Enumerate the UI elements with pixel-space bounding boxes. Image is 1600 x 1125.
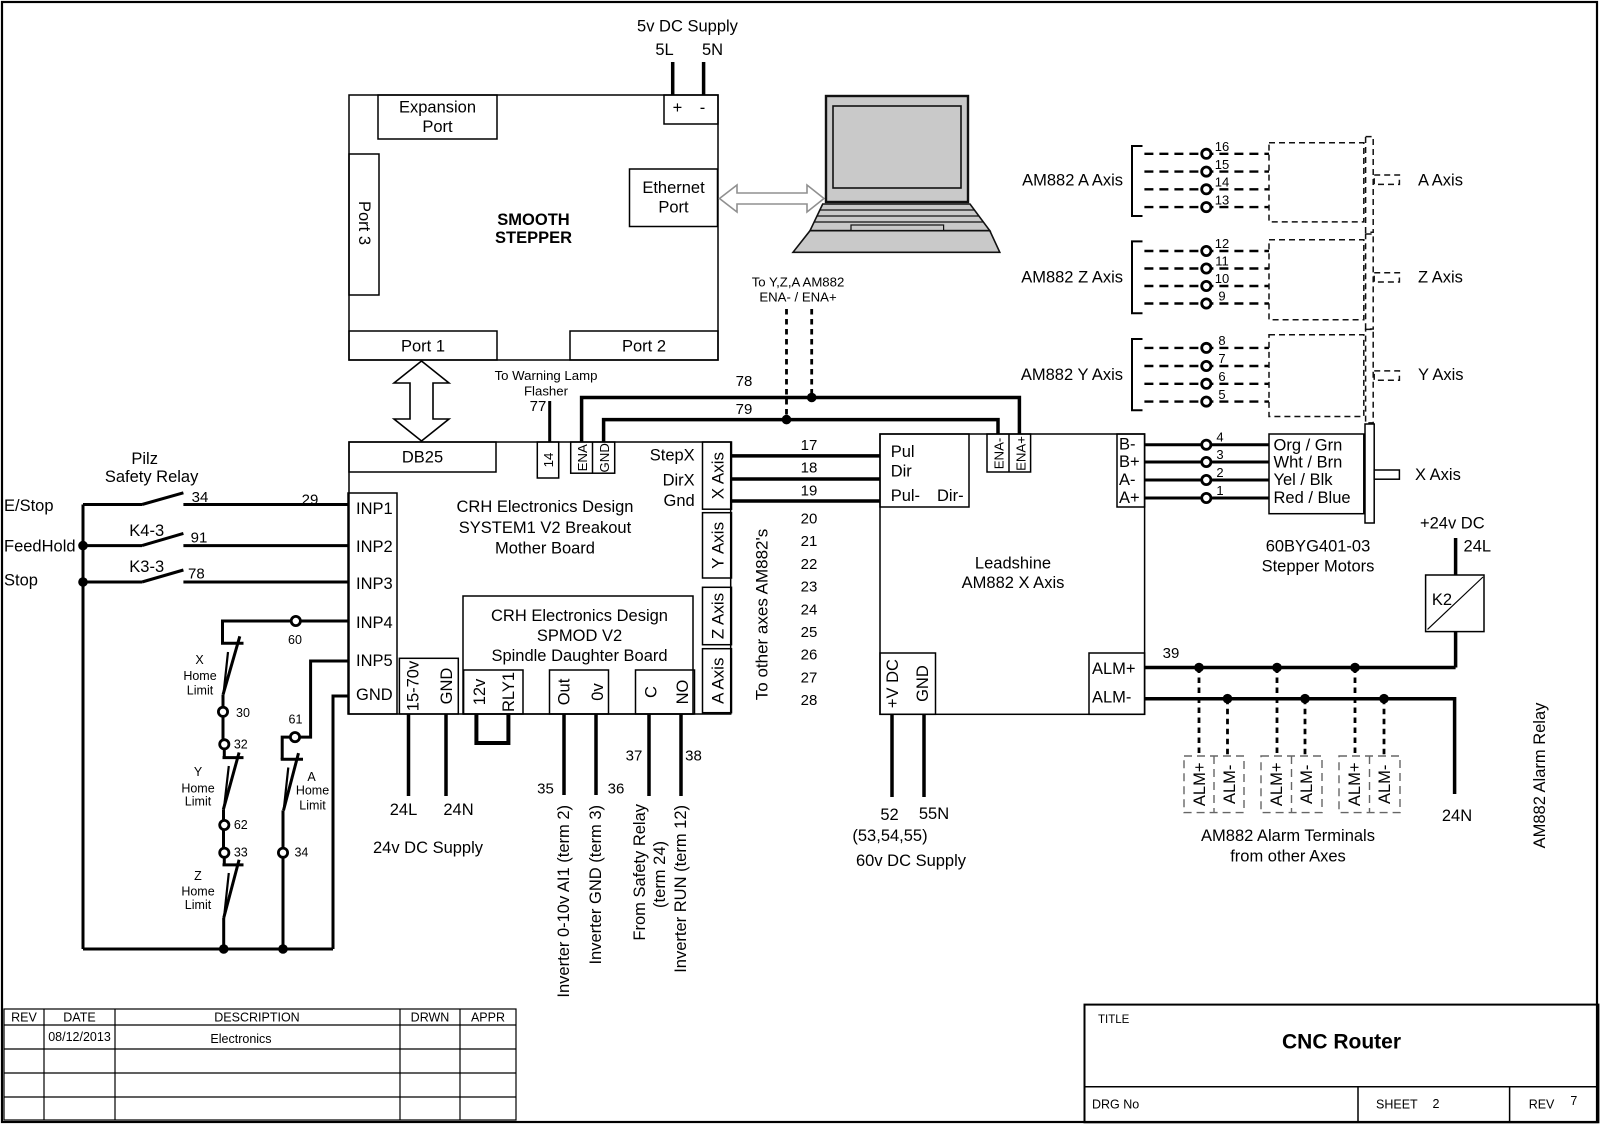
svg-text:61: 61 [289, 713, 303, 727]
svg-text:36: 36 [608, 781, 625, 798]
pin 9 [1202, 299, 1211, 308]
svg-text:1: 1 [1216, 483, 1223, 498]
dashed drop ALM+ c [1354, 668, 1357, 757]
wire B+ pin 3 [1145, 461, 1269, 464]
pin 32 [220, 740, 229, 749]
pin 6 [1202, 379, 1211, 388]
svg-text:Pul: Pul [891, 443, 915, 461]
svg-text:DRG No: DRG No [1092, 1098, 1139, 1112]
junction on wire 78 [807, 393, 817, 403]
svg-text:Y: Y [194, 765, 203, 779]
svg-text:78: 78 [736, 373, 753, 390]
dashed wire pin 16 [1144, 153, 1269, 155]
svg-text:DB25: DB25 [402, 449, 443, 467]
junction X chain bottom [219, 944, 229, 954]
dashed drop ALM+ a [1198, 668, 1201, 757]
svg-text:INP3: INP3 [356, 575, 393, 593]
svg-text:A+: A+ [1119, 489, 1140, 507]
svg-text:Port 1: Port 1 [401, 338, 445, 356]
svg-text:29: 29 [302, 492, 319, 509]
svg-text:Inverter GND (term 3): Inverter GND (term 3) [587, 805, 605, 965]
Y axis header [703, 513, 732, 578]
title block [1085, 1005, 1599, 1123]
wire B- pin 4 [1145, 443, 1269, 446]
svg-text:StepX: StepX [650, 447, 695, 465]
power terminal block + - [664, 95, 718, 124]
svg-text:34: 34 [192, 489, 209, 506]
ENA- ENA+ terminal block [987, 434, 1031, 472]
svg-text:38: 38 [685, 748, 702, 765]
svg-text:From Safety Relay: From Safety Relay [631, 803, 649, 940]
A axis header [703, 649, 732, 713]
svg-text:33: 33 [234, 846, 248, 860]
svg-text:Port 3: Port 3 [355, 201, 373, 245]
svg-text:24L: 24L [390, 801, 418, 819]
svg-text:C: C [643, 686, 661, 698]
svg-text:Electronics: Electronics [210, 1032, 271, 1046]
wire 5L to + terminal [671, 62, 675, 95]
svg-text:4: 4 [1216, 430, 1223, 445]
svg-text:ALM+: ALM+ [1268, 763, 1286, 807]
pin 62 [220, 820, 229, 829]
wire 5N to - terminal [702, 62, 706, 95]
svg-text:INP1: INP1 [356, 500, 393, 518]
pin 8 [1202, 343, 1211, 352]
svg-text:CRH Electronics Design: CRH Electronics Design [457, 498, 634, 516]
svg-text:X: X [195, 653, 204, 667]
pin 13 [1202, 203, 1211, 212]
svg-text:08/12/2013: 08/12/2013 [48, 1030, 111, 1044]
svg-text:22: 22 [801, 556, 818, 573]
dashed wire pin 5 [1144, 400, 1269, 402]
pin 1 [1202, 493, 1211, 502]
dashed wire pin 9 [1144, 302, 1269, 304]
svg-text:AM882 Y Axis: AM882 Y Axis [1021, 366, 1123, 384]
svg-text:Port: Port [422, 118, 453, 136]
svg-text:Limit: Limit [299, 798, 326, 812]
svg-text:7: 7 [1570, 1094, 1577, 1108]
dashed wire pin 6 [1144, 383, 1269, 385]
svg-text:Pilz: Pilz [131, 450, 158, 468]
junction FeedHold [78, 541, 88, 551]
svg-text:10: 10 [1215, 271, 1229, 286]
svg-text:GND: GND [438, 668, 456, 705]
wire to pin 30 [222, 695, 225, 740]
alarm terminal block axis 3 [1339, 756, 1400, 813]
wire 77 to terminal 14 [548, 401, 551, 442]
switch Y home limit [181, 753, 243, 810]
svg-text:INP4: INP4 [356, 614, 393, 632]
input terminal strip INP1-GND [348, 493, 397, 714]
svg-text:To Y,Z,A AM882: To Y,Z,A AM882 [752, 275, 845, 290]
svg-text:30: 30 [236, 706, 250, 720]
breakout mother board U2 [349, 442, 731, 714]
dashed wire pin 14 [1144, 188, 1269, 190]
+V DC GND terminal block [880, 653, 936, 714]
junction ALM+ a [1194, 663, 1204, 673]
svg-text:K4-3: K4-3 [129, 522, 164, 540]
X axis header [703, 442, 732, 509]
svg-text:X Axis: X Axis [1415, 466, 1461, 484]
wire to pin 62 [222, 810, 225, 848]
svg-text:DirX: DirX [663, 472, 695, 490]
wire 36 0v [594, 714, 598, 795]
svg-text:Limit: Limit [185, 795, 212, 809]
wire 24L to K2 [1454, 538, 1458, 575]
bracket Y group [1132, 339, 1143, 410]
pin 3 [1202, 457, 1211, 466]
dashed wire pin 10 [1144, 285, 1269, 287]
smooth stepper board U1 [349, 95, 718, 360]
svg-text:26: 26 [801, 647, 818, 664]
svg-text:K2: K2 [1432, 591, 1452, 609]
svg-text:18: 18 [801, 460, 818, 477]
svg-text:REV: REV [1529, 1098, 1555, 1112]
svg-text:+: + [673, 99, 683, 117]
wire 39 ALM+ bus [1145, 666, 1456, 670]
svg-text:B-: B- [1119, 436, 1136, 454]
wire 24N to GND [444, 714, 448, 796]
switch X home limit [183, 636, 243, 697]
junction ALM- a [1223, 694, 1233, 704]
alarm terminal block axis 1 [1184, 756, 1244, 813]
svg-text:Z: Z [194, 869, 202, 883]
spindle daughter board U3 [463, 596, 693, 714]
Pilz safety relay label [105, 450, 199, 486]
svg-text:Org / Grn: Org / Grn [1274, 436, 1343, 454]
svg-text:INP5: INP5 [356, 652, 393, 670]
dashed wire pin 12 [1144, 250, 1269, 252]
svg-text:37: 37 [626, 748, 643, 765]
svg-text:Home: Home [181, 885, 214, 899]
svg-text:3: 3 [1216, 447, 1223, 462]
svg-text:11: 11 [1215, 254, 1229, 269]
svg-text:Wht / Brn: Wht / Brn [1274, 453, 1343, 471]
svg-text:Mother Board: Mother Board [495, 540, 595, 558]
svg-text:DESCRIPTION: DESCRIPTION [214, 1011, 299, 1025]
svg-text:91: 91 [191, 530, 208, 547]
pin 12 [1202, 246, 1211, 255]
pin 30 [218, 707, 227, 716]
24v DC supply labels [373, 801, 484, 857]
wire 17 StepX to Pul [732, 454, 881, 458]
expansion port connector [378, 95, 497, 139]
svg-text:Y Axis: Y Axis [1418, 366, 1464, 384]
svg-text:24N: 24N [1442, 807, 1472, 825]
label to other AM882 enables [752, 275, 845, 305]
wire 24L to 15-70v [407, 714, 411, 796]
svg-text:DATE: DATE [63, 1011, 95, 1025]
svg-text:ALM-: ALM- [1376, 765, 1394, 804]
svg-text:35: 35 [537, 781, 554, 798]
dashed wire pin 15 [1144, 170, 1269, 172]
svg-text:Leadshine: Leadshine [975, 555, 1051, 573]
svg-text:APPR: APPR [471, 1011, 505, 1025]
alarm terminal block axis 2 [1261, 756, 1322, 813]
svg-text:Flasher: Flasher [524, 384, 569, 399]
wire K2 to ALM+ [1454, 632, 1458, 668]
svg-text:2: 2 [1433, 1097, 1440, 1111]
svg-text:Home: Home [181, 781, 214, 795]
svg-text:19: 19 [801, 483, 818, 500]
pin 2 [1202, 475, 1211, 484]
wire pin32 to Y switch [223, 749, 226, 758]
svg-text:A: A [307, 770, 316, 784]
switch K4-3 contact 91 [83, 522, 348, 547]
svg-text:Port 2: Port 2 [622, 338, 666, 356]
dashed ENA+ stub wire [810, 309, 813, 398]
ENA GND terminal block [571, 442, 615, 473]
pin 5 [1202, 397, 1211, 406]
svg-text:Limit: Limit [185, 898, 212, 912]
svg-text:Limit: Limit [187, 684, 214, 698]
svg-text:55N: 55N [919, 805, 949, 823]
svg-text:Spindle Daughter Board: Spindle Daughter Board [491, 647, 667, 665]
5v DC supply label [637, 18, 739, 60]
switch A home limit [281, 753, 330, 812]
Out 0v terminal block [550, 670, 609, 714]
junction Stop [78, 577, 88, 587]
svg-text:5N: 5N [702, 41, 723, 59]
svg-text:32: 32 [234, 738, 248, 752]
wire link 12v to RLY1 [476, 714, 508, 743]
svg-text:12: 12 [1215, 236, 1229, 251]
pin 60 [291, 616, 300, 625]
svg-text:ALM-: ALM- [1298, 765, 1316, 804]
svg-text:X Axis: X Axis [709, 452, 728, 499]
ethernet port connector [630, 169, 718, 227]
wire A switch to bottom bus [282, 810, 285, 949]
svg-text:Inverter RUN (term 12): Inverter RUN (term 12) [672, 805, 690, 973]
wire 18 DirX to Dir [732, 477, 881, 481]
svg-text:5L: 5L [655, 41, 673, 59]
svg-text:39: 39 [1163, 645, 1180, 662]
svg-text:INP2: INP2 [356, 538, 393, 556]
svg-text:16: 16 [1215, 139, 1229, 154]
svg-text:Expansion: Expansion [399, 99, 476, 117]
svg-text:FeedHold: FeedHold [4, 537, 76, 555]
pin 11 [1202, 264, 1211, 273]
pin labels StepX DirX Gnd [650, 447, 695, 511]
stepper motor Z dashed [1269, 234, 1399, 329]
junction ALM- c [1379, 694, 1389, 704]
svg-text:E/Stop: E/Stop [4, 497, 54, 515]
svg-text:+V DC: +V DC [884, 659, 902, 708]
DB25 link double arrow [394, 361, 449, 441]
svg-text:28: 28 [801, 692, 818, 709]
svg-text:Stepper Motors: Stepper Motors [1262, 558, 1375, 576]
60v DC supply labels [852, 805, 966, 870]
svg-text:Z Axis: Z Axis [709, 593, 728, 639]
dashed drop ALM- c [1383, 699, 1386, 756]
wire 37 C [647, 714, 651, 796]
junction ALM+ c [1350, 663, 1360, 673]
svg-text:Home: Home [296, 784, 329, 798]
svg-text:8: 8 [1218, 333, 1225, 348]
svg-text:17: 17 [801, 437, 818, 454]
pin 14 [1202, 185, 1211, 194]
svg-text:5v DC Supply: 5v DC Supply [637, 18, 739, 36]
svg-text:24N: 24N [443, 801, 473, 819]
svg-text:DRWN: DRWN [411, 1011, 450, 1025]
switch E/Stop contact 34 [83, 489, 348, 506]
wire 38 NO [679, 714, 683, 796]
stepper motor Y dashed [1269, 329, 1399, 423]
+24v DC supply label [1420, 515, 1491, 556]
svg-text:ENA+: ENA+ [1014, 436, 1029, 471]
port 2 connector [570, 331, 718, 360]
15-70v GND power terminal block [399, 658, 458, 714]
stepper motors label [1262, 538, 1375, 576]
dashed drop ALM+ b [1276, 668, 1279, 757]
junction ALM- b [1300, 694, 1310, 704]
svg-text:from other Axes: from other Axes [1230, 848, 1346, 866]
pin 7 [1202, 361, 1211, 370]
svg-text:12v: 12v [471, 678, 489, 705]
svg-text:A Axis: A Axis [1418, 172, 1463, 190]
svg-text:ALM-: ALM- [1092, 689, 1131, 707]
dashed wire pin 11 [1144, 267, 1269, 269]
svg-text:24L: 24L [1464, 537, 1492, 555]
wire A+ pin 1 [1145, 497, 1269, 500]
svg-text:9: 9 [1218, 289, 1225, 304]
svg-text:AM882 A Axis: AM882 A Axis [1022, 172, 1123, 190]
wire 79 GND [604, 420, 998, 442]
wire 78 ENA [582, 398, 1020, 443]
svg-text:0v: 0v [589, 683, 607, 701]
svg-text:TITLE: TITLE [1098, 1014, 1130, 1026]
pin 16 [1202, 149, 1211, 158]
svg-text:ENA- / ENA+: ENA- / ENA+ [759, 290, 837, 305]
B- B+ A- A+ terminal block [1117, 434, 1145, 507]
svg-text:15: 15 [1215, 157, 1229, 172]
svg-text:Out: Out [556, 678, 574, 705]
svg-text:25: 25 [801, 624, 818, 641]
svg-text:CNC Router: CNC Router [1282, 1031, 1401, 1054]
bracket Z group [1132, 241, 1143, 313]
svg-text:Inverter 0-10v AI1 (term 2): Inverter 0-10v AI1 (term 2) [555, 805, 573, 998]
svg-text:ALM-: ALM- [1221, 765, 1239, 804]
svg-text:GND: GND [356, 686, 393, 704]
leadshine AM882 X axis drive U4 [880, 434, 1145, 714]
stepper motor X M1 [1269, 424, 1399, 523]
left bus wire [82, 505, 85, 950]
svg-text:23: 23 [801, 579, 818, 596]
svg-text:60BYG401-03: 60BYG401-03 [1266, 538, 1371, 556]
svg-text:52: 52 [880, 806, 898, 824]
svg-text:(term 24): (term 24) [651, 841, 669, 908]
bracket A group [1132, 146, 1143, 216]
C NO relay terminal block [636, 670, 695, 714]
svg-text:A-: A- [1119, 471, 1136, 489]
svg-text:NO: NO [674, 679, 692, 704]
svg-text:AM882 X Axis: AM882 X Axis [962, 574, 1065, 592]
svg-text:Pul-: Pul- [891, 487, 920, 505]
switch Z home limit [181, 860, 243, 918]
svg-text:24v DC Supply: 24v DC Supply [373, 839, 484, 857]
net numbers 20-28 [801, 511, 818, 710]
port 3 connector [349, 154, 379, 295]
ethernet link double arrow [720, 185, 825, 212]
svg-text:B+: B+ [1119, 453, 1140, 471]
switch K3-3 contact 78 [83, 558, 348, 583]
svg-text:To Warning Lamp: To Warning Lamp [495, 368, 598, 383]
stepper motor A dashed [1269, 137, 1399, 233]
svg-text:K3-3: K3-3 [129, 558, 164, 576]
svg-text:Ethernet: Ethernet [642, 179, 705, 197]
svg-text:7: 7 [1218, 351, 1225, 366]
svg-text:Stop: Stop [4, 572, 38, 590]
svg-text:14: 14 [1215, 175, 1229, 190]
wire pin33 to Z switch [223, 857, 226, 865]
dashed wire pin 7 [1144, 365, 1269, 367]
wire 52 +V DC [890, 714, 894, 797]
svg-text:60: 60 [288, 633, 302, 647]
svg-text:13: 13 [1215, 192, 1229, 207]
svg-text:SYSTEM1 V2 Breakout: SYSTEM1 V2 Breakout [459, 519, 632, 537]
wire Z switch to bottom bus [222, 918, 225, 949]
junction ALM+ b [1272, 663, 1282, 673]
svg-text:Safety Relay: Safety Relay [105, 468, 199, 486]
pin 33 [220, 848, 229, 857]
dashed drop ALM- a [1226, 699, 1229, 756]
svg-text:Y Axis: Y Axis [709, 522, 728, 569]
DB25 connector [349, 442, 496, 472]
dashed drop ALM- b [1304, 699, 1307, 756]
svg-text:ALM+: ALM+ [1191, 763, 1209, 807]
svg-text:REV: REV [11, 1011, 37, 1025]
revision table [4, 1009, 516, 1120]
svg-text:ALM+: ALM+ [1092, 660, 1136, 678]
wire INP4 to X home chain [223, 621, 349, 643]
ALM+ ALM- terminal block [1089, 653, 1145, 714]
svg-text:78: 78 [188, 566, 205, 583]
svg-text:Gnd: Gnd [664, 492, 695, 510]
Pul Dir terminal block [880, 434, 969, 507]
wire INP5 to A home chain [282, 661, 348, 759]
svg-text:2: 2 [1216, 465, 1223, 480]
svg-text:To other axes AM882's: To other axes AM882's [753, 529, 772, 700]
svg-text:Yel / Blk: Yel / Blk [1274, 471, 1334, 489]
svg-text:ENA-: ENA- [992, 438, 1007, 470]
relay coil K2 [1426, 575, 1484, 632]
bottom bus wire [83, 948, 333, 951]
PC laptop [793, 96, 1000, 252]
svg-text:Dir-: Dir- [937, 487, 964, 505]
svg-text:SHEET: SHEET [1376, 1098, 1418, 1112]
svg-text:27: 27 [801, 669, 818, 686]
svg-text:AM882 Alarm Relay: AM882 Alarm Relay [1531, 702, 1549, 849]
svg-text:6: 6 [1218, 369, 1225, 384]
svg-text:Port: Port [658, 199, 689, 217]
dashed wire pin 8 [1144, 347, 1269, 349]
alarm terminals label [1201, 827, 1375, 866]
svg-text:Dir: Dir [891, 463, 913, 481]
wire 55N GND [922, 714, 926, 797]
svg-text:GND: GND [914, 665, 932, 702]
Z axis header [703, 587, 732, 644]
12v RLY1 terminal block [464, 670, 523, 714]
port 1 connector [349, 331, 497, 360]
svg-text:34: 34 [294, 846, 308, 860]
svg-text:ENA: ENA [575, 444, 590, 471]
warning lamp flasher label [495, 368, 598, 415]
svg-text:60v DC Supply: 60v DC Supply [856, 852, 967, 870]
svg-text:ALM+: ALM+ [1346, 763, 1364, 807]
svg-text:STEPPER: STEPPER [495, 229, 572, 247]
svg-text:79: 79 [736, 401, 753, 418]
svg-text:20: 20 [801, 511, 818, 528]
